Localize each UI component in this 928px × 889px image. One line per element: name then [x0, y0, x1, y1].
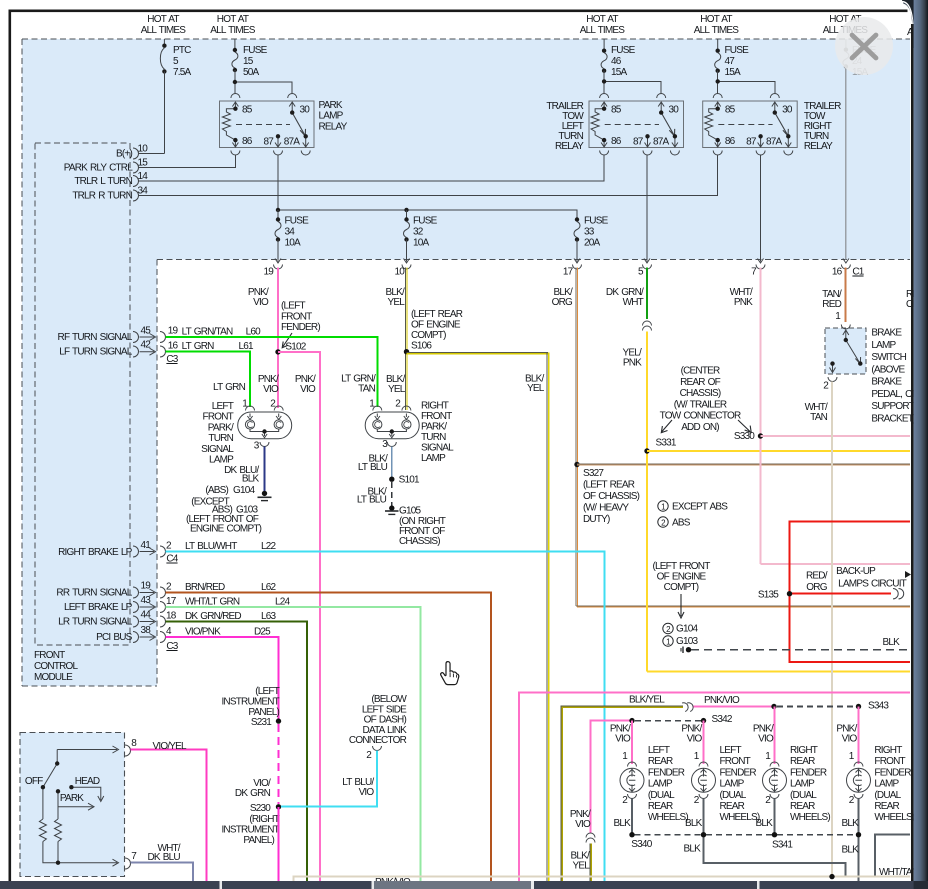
svg-text:86: 86: [611, 136, 622, 147]
svg-text:7.5A: 7.5A: [173, 67, 192, 78]
fuse 33: [574, 216, 609, 249]
svg-text:(DUAL: (DUAL: [648, 790, 675, 801]
labels row 4 D25 C3: [166, 626, 271, 652]
brake lamp switch SW2 internals: [828, 325, 861, 382]
svg-text:43: 43: [140, 595, 151, 606]
svg-text:L60: L60: [246, 327, 262, 338]
wire park relay control row to relay pin 86: [139, 155, 236, 168]
wire VIO/PNK D25 to S231: [166, 637, 279, 719]
connector arrows row 43: [133, 602, 166, 613]
svg-text:85: 85: [611, 104, 622, 115]
svg-text:20A: 20A: [584, 238, 601, 249]
front control module label: [34, 650, 79, 683]
svg-text:ADD ON): ADD ON): [681, 422, 719, 433]
svg-text:(W/ TRAILER: (W/ TRAILER: [674, 399, 727, 410]
wire YEL/PNK lower elbow to right edge: [647, 670, 910, 672]
svg-text:DK BLU: DK BLU: [147, 852, 180, 863]
ground G104/G103: [186, 485, 272, 535]
labels row 2 L62: [166, 582, 277, 594]
labels row 19 L60: [168, 326, 261, 338]
wire VIO/PNK below S230: [278, 807, 280, 881]
wire BLK/YEL below connector: [590, 844, 591, 882]
legend except abs / abs: [658, 501, 728, 529]
svg-text:ABS: ABS: [672, 518, 691, 529]
labels row 18 L63: [166, 611, 277, 623]
svg-text:BLK: BLK: [685, 818, 703, 829]
svg-text:FUSE: FUSE: [725, 45, 750, 56]
svg-text:45: 45: [140, 326, 151, 337]
labels row 2 L22 C4: [166, 541, 277, 565]
svg-text:BLK: BLK: [841, 818, 859, 829]
data link connector pin 2: [366, 746, 381, 761]
labels row 16 L61: [166, 341, 254, 366]
svg-text:BACK-UP: BACK-UP: [836, 566, 876, 577]
svg-text:YEL: YEL: [527, 383, 545, 394]
wire BLK/YEL branch S106 to right feed: [407, 352, 549, 881]
brake lamp switch dashed box: [825, 328, 866, 374]
svg-text:PARK: PARK: [319, 100, 343, 111]
node splice on lamp feed: [771, 704, 776, 709]
svg-text:FENDER: FENDER: [790, 767, 827, 778]
svg-text:10A: 10A: [413, 238, 430, 249]
node junction above fuse 34: [276, 208, 280, 212]
wire BLK lamp E5 to S341: [774, 799, 776, 835]
svg-text:LAMPS CIRCUIT: LAMPS CIRCUIT: [838, 579, 907, 590]
hot at all times label 5: [823, 14, 869, 36]
svg-text:BLK: BLK: [755, 818, 773, 829]
svg-text:PNK: PNK: [623, 358, 642, 369]
splice S331: [644, 438, 677, 454]
svg-text:15A: 15A: [725, 67, 742, 78]
svg-text:INSTRUMENT: INSTRUMENT: [221, 825, 279, 836]
svg-text:17: 17: [166, 596, 177, 607]
svg-text:32: 32: [413, 227, 424, 238]
connector arrows row 44: [133, 616, 166, 627]
svg-text:S102: S102: [285, 342, 306, 353]
svg-text:SWITCH: SWITCH: [871, 352, 906, 363]
svg-text:BRAKE: BRAKE: [871, 328, 902, 339]
svg-text:ORG: ORG: [806, 582, 827, 593]
svg-text:TRLR R TURN: TRLR R TURN: [72, 191, 132, 202]
svg-text:RIGHT: RIGHT: [790, 745, 818, 756]
wire PTC to B(+) row: [163, 71, 165, 153]
wire WHT/TAN brake switch down: [831, 382, 833, 877]
wire LT BLU/VIO DLC to S230: [281, 751, 377, 807]
svg-text:REAR: REAR: [790, 756, 815, 767]
svg-text:FRONT: FRONT: [874, 756, 905, 767]
svg-text:S330: S330: [734, 431, 755, 442]
fuse 34: [275, 216, 309, 249]
svg-text:S327: S327: [583, 468, 604, 479]
wire BLK/ORG pin 17 down: [576, 268, 577, 607]
left front fender lamp E4: [681, 724, 760, 824]
svg-text:(LEFT FRONT: (LEFT FRONT: [652, 561, 710, 572]
svg-text:S230: S230: [250, 803, 271, 814]
svg-text:(ABS): (ABS): [205, 485, 228, 496]
svg-text:BRAKE: BRAKE: [871, 377, 902, 388]
svg-text:ALL TIMES: ALL TIMES: [141, 25, 187, 36]
inline connector PNK/VIO to BLK/YEL lower: [586, 833, 595, 843]
svg-text:34: 34: [285, 227, 296, 238]
trailer tow left turn relay U2: [546, 94, 683, 156]
headlamp switch dashed box: [20, 733, 125, 877]
splice S327: [574, 462, 639, 525]
node WHT/TAN junction with brake switch wire: [829, 874, 834, 879]
svg-text:DK GRN/RED: DK GRN/RED: [185, 611, 241, 622]
svg-text:19: 19: [140, 581, 151, 592]
svg-text:LT BLU: LT BLU: [358, 462, 388, 473]
wire trailer right turn row to right relay pin 86: [139, 155, 718, 196]
svg-text:VIO: VIO: [253, 297, 269, 308]
splice S101: [389, 475, 420, 486]
svg-text:OF ENGINE: OF ENGINE: [657, 572, 707, 583]
node TRLR L TURN pin 14: [74, 171, 148, 187]
wire LT GRN L61 to left lamp pin 1: [166, 352, 251, 407]
splice S106: [404, 309, 463, 354]
svg-text:BLK: BLK: [882, 637, 900, 648]
svg-text:B(+): B(+): [116, 149, 132, 160]
svg-text:FRONT: FRONT: [203, 412, 234, 423]
svg-text:FRONT: FRONT: [281, 311, 312, 322]
node RF TURN SIGNAL pin 45: [58, 326, 152, 344]
svg-text:C3: C3: [166, 354, 178, 365]
svg-text:16: 16: [168, 341, 179, 352]
splice S341: [772, 832, 794, 851]
node junction E4 on dashed ground bus: [701, 832, 706, 837]
svg-text:PARK/: PARK/: [208, 422, 234, 433]
svg-text:DUTY): DUTY): [583, 514, 610, 525]
wire fuse 24 down to pin 16 (dimmed): [845, 67, 847, 260]
svg-text:RIGHT: RIGHT: [874, 745, 902, 756]
svg-text:87: 87: [746, 136, 757, 147]
svg-text:FUSE: FUSE: [413, 216, 438, 227]
svg-text:LAMP: LAMP: [209, 455, 234, 466]
inline connector BLK/YEL to PNK/VIO: [682, 701, 694, 711]
svg-text:LT GRN: LT GRN: [182, 341, 215, 352]
svg-text:(DUAL: (DUAL: [874, 790, 901, 801]
svg-text:BLK/YEL: BLK/YEL: [629, 695, 665, 706]
svg-text:YEL: YEL: [572, 861, 590, 872]
fuse 47: [715, 39, 749, 78]
wire DK GRN/WHT pin 5 down: [646, 268, 648, 320]
close button X: [835, 17, 893, 75]
svg-text:RIGHT BRAKE LP: RIGHT BRAKE LP: [58, 547, 133, 558]
svg-text:TAN: TAN: [358, 384, 375, 395]
svg-text:86: 86: [725, 136, 736, 147]
svg-text:34: 34: [138, 186, 149, 197]
pin arrows through dashed boundary: [274, 259, 851, 270]
wire VIO/DK GRN dashed S231 to S230: [277, 724, 279, 804]
svg-text:WHT/LT GRN: WHT/LT GRN: [185, 597, 240, 608]
svg-text:L63: L63: [261, 611, 277, 622]
svg-text:PARK: PARK: [60, 793, 84, 804]
svg-text:D25: D25: [254, 627, 271, 638]
svg-text:FENDER: FENDER: [720, 767, 757, 778]
svg-text:VIO/YEL: VIO/YEL: [153, 741, 188, 752]
wire BLK lamp E6 down to bottom: [858, 799, 860, 882]
splice S231: [221, 686, 281, 728]
svg-text:LT GRN/TAN: LT GRN/TAN: [182, 327, 233, 338]
wire WHT/PNK pin 7 down: [760, 268, 762, 565]
wire fuse 46 to left relay pins 85 and 30: [604, 71, 661, 94]
svg-text:RELAY: RELAY: [804, 141, 833, 152]
wire trailer left turn row to left relay pin 86: [139, 155, 605, 181]
ground G105: [385, 505, 446, 547]
label LT GRN/TAN above right lamp pin1: [341, 374, 376, 395]
wire junction to fuse 32: [406, 210, 408, 220]
svg-text:PCI BUS: PCI BUS: [96, 632, 133, 643]
node B(+) pin 10: [116, 144, 148, 160]
svg-text:85: 85: [725, 104, 736, 115]
svg-text:FUSE: FUSE: [243, 45, 268, 56]
wire RED/ORG back-up lamps circuit: [790, 522, 911, 662]
svg-text:TURN: TURN: [208, 433, 233, 444]
svg-text:L24: L24: [275, 597, 291, 608]
svg-text:87: 87: [633, 136, 644, 147]
wire BRN/RED L62: [166, 593, 492, 882]
wire dashed ground bus S340 to S341 to E6: [635, 834, 857, 836]
svg-text:(LEFT: (LEFT: [255, 686, 279, 697]
wire fuse 15 to relay pins 85 and 30: [235, 70, 292, 94]
svg-text:REAR: REAR: [648, 801, 673, 812]
svg-text:S101: S101: [399, 475, 420, 486]
wire WHT/TAN bottom run: [294, 877, 910, 881]
svg-text:ALL TIMES: ALL TIMES: [580, 25, 626, 36]
svg-text:LAMP: LAMP: [874, 779, 899, 790]
svg-text:S343: S343: [868, 701, 889, 712]
note left front of engine compt with arrow: [652, 561, 710, 618]
wire BLK from right edge elbow down: [875, 835, 910, 877]
svg-text:C3: C3: [166, 641, 178, 652]
connector arrows row 42: [133, 346, 166, 357]
svg-text:S341: S341: [772, 840, 793, 851]
svg-text:CONTROL: CONTROL: [34, 661, 79, 672]
splice S230: [221, 803, 281, 846]
svg-text:LAMP: LAMP: [871, 340, 896, 351]
svg-text:(LEFT REAR: (LEFT REAR: [583, 480, 635, 491]
svg-text:LAMP: LAMP: [720, 779, 745, 790]
svg-text:L22: L22: [261, 541, 277, 552]
svg-text:WHEELS): WHEELS): [720, 812, 760, 823]
wire BLK/ORG branch S327 to right edge: [577, 464, 910, 465]
svg-text:S342: S342: [712, 714, 733, 725]
svg-text:87A: 87A: [284, 136, 301, 147]
svg-text:REAR: REAR: [790, 801, 815, 812]
connector arrows row 45: [133, 332, 166, 343]
node splice on rear feed: [629, 718, 634, 723]
svg-text:17: 17: [563, 267, 574, 278]
svg-text:VIO: VIO: [263, 384, 279, 395]
wire BLK/YEL pin 10 down: [406, 268, 407, 411]
svg-text:LT BLU: LT BLU: [357, 495, 387, 506]
svg-text:LAMP: LAMP: [648, 779, 673, 790]
svg-text:VIO: VIO: [615, 734, 631, 745]
circuit breaker PTC 5: [160, 39, 191, 78]
trailer tow right turn relay U3: [703, 94, 841, 156]
svg-text:50A: 50A: [243, 67, 260, 78]
svg-text:C1: C1: [852, 267, 864, 278]
svg-text:WHEELS): WHEELS): [648, 812, 688, 823]
svg-text:REAR: REAR: [874, 801, 899, 812]
svg-text:PTC: PTC: [173, 45, 191, 56]
svg-text:38: 38: [140, 625, 151, 636]
wire DK BLU/BLK to ground: [264, 447, 266, 494]
svg-text:(RIGHT: (RIGHT: [249, 814, 279, 825]
brake lamp switch label: [871, 328, 919, 425]
svg-text:SUPPORT: SUPPORT: [871, 401, 914, 412]
svg-text:EXCEPT ABS: EXCEPT ABS: [672, 502, 728, 513]
label PNK/VIO above left lamp pin2: [258, 374, 279, 395]
node PARK RLY CTRL pin 15: [64, 158, 149, 174]
svg-text:L61: L61: [239, 341, 255, 352]
svg-text:HOT AT: HOT AT: [217, 14, 249, 25]
note center rear of chassis with arrows to S331 S330: [660, 366, 752, 434]
node LEFT BRAKE LP pin 43: [64, 595, 151, 613]
svg-text:ALL TIMES: ALL TIMES: [694, 25, 740, 36]
hot at all times label 4: [694, 14, 740, 36]
svg-text:S231: S231: [251, 717, 272, 728]
svg-text:COMPT): COMPT): [411, 330, 446, 341]
splice S330: [734, 431, 763, 442]
hot at all times label 3: [580, 14, 626, 36]
svg-text:ALL TIMES: ALL TIMES: [210, 25, 256, 36]
svg-text:RELAY: RELAY: [319, 121, 348, 132]
label PNK/VIO branch: [295, 374, 316, 395]
dashed border of hot-at-all-times region: [22, 39, 910, 686]
svg-text:RF TURN SIGNAL: RF TURN SIGNAL: [58, 332, 133, 343]
svg-text:19: 19: [168, 326, 179, 337]
svg-text:PNK: PNK: [734, 297, 753, 308]
svg-text:LAMP: LAMP: [790, 779, 815, 790]
wire BLK dashed to right edge: [691, 649, 910, 651]
svg-text:WHT: WHT: [623, 297, 644, 308]
wire junction to fuse 34: [277, 210, 279, 220]
wire dashed to S342: [635, 720, 701, 722]
labels PNK/VIO over BLK/YEL: [570, 809, 591, 872]
fuse 15: [232, 39, 268, 78]
node LR TURN SIGNAL pin 44: [58, 610, 151, 628]
svg-text:46: 46: [611, 56, 622, 67]
svg-text:LAMP: LAMP: [319, 111, 344, 122]
wires fuses down to dashed boundary: [278, 155, 761, 262]
svg-text:S340: S340: [631, 839, 652, 850]
svg-text:30: 30: [669, 104, 680, 115]
svg-text:OF CHASSIS): OF CHASSIS): [583, 491, 640, 502]
svg-text:G104: G104: [676, 624, 699, 635]
label back-up lamps circuit: [836, 566, 911, 590]
svg-text:(W/ HEAVY: (W/ HEAVY: [583, 503, 629, 514]
svg-text:HOT AT: HOT AT: [586, 14, 618, 25]
svg-text:30: 30: [300, 104, 311, 115]
svg-text:LEFT: LEFT: [648, 745, 670, 756]
node LF TURN SIGNAL pin 42: [59, 340, 151, 358]
svg-text:VIO: VIO: [300, 384, 316, 395]
wire fuse 47 to right relay pins 85 and 30: [718, 71, 775, 94]
wire PNK/VIO pin 19 down: [277, 268, 279, 409]
wire DK GRN/RED L63: [166, 622, 307, 882]
svg-text:47: 47: [725, 56, 736, 67]
svg-text:LR TURN SIGNAL: LR TURN SIGNAL: [58, 617, 133, 628]
svg-text:SIGNAL: SIGNAL: [201, 444, 234, 455]
wire WHT/LT GRN L24: [166, 607, 421, 881]
connector arrows row 38: [133, 632, 166, 643]
svg-text:LEFT: LEFT: [720, 745, 742, 756]
ground ref G104 G103: [663, 623, 699, 647]
fuse 24 (dimmed): [843, 39, 877, 78]
label WHT/TAN: [805, 402, 828, 423]
svg-text:INSTRUMENT: INSTRUMENT: [221, 697, 279, 708]
svg-text:VIO/PNK: VIO/PNK: [185, 627, 221, 638]
svg-text:RR TURN SIGNAL: RR TURN SIGNAL: [56, 588, 132, 599]
svg-text:CONNECTOR: CONNECTOR: [349, 735, 407, 746]
svg-text:FENDER: FENDER: [874, 767, 911, 778]
svg-text:BLK: BLK: [242, 474, 260, 485]
svg-text:87A: 87A: [766, 136, 783, 147]
svg-text:L62: L62: [261, 582, 277, 593]
splice S135: [758, 590, 792, 601]
wire name labels row: [248, 287, 928, 310]
svg-text:G103: G103: [676, 636, 699, 647]
svg-text:FENDER): FENDER): [281, 322, 320, 333]
fuse 32: [404, 216, 438, 249]
right rear fender lamp E5: [753, 724, 831, 824]
svg-text:OF ENGINE: OF ENGINE: [411, 320, 461, 331]
svg-text:C4: C4: [166, 554, 178, 565]
svg-text:MODULE: MODULE: [34, 672, 73, 683]
svg-text:DK GRN: DK GRN: [235, 788, 271, 799]
wire WHT/PNK branch S330 to right edge: [761, 435, 911, 437]
svg-text:(LEFT: (LEFT: [281, 301, 305, 312]
svg-text:18: 18: [166, 611, 177, 622]
svg-text:VIO: VIO: [359, 787, 375, 798]
wire PNK/VIO rear lamp branch with inline connector: [591, 721, 633, 833]
svg-text:BLK: BLK: [683, 844, 701, 855]
svg-text:TURN: TURN: [421, 432, 446, 443]
ground symbol bottom: [681, 647, 691, 654]
svg-text:LAMP: LAMP: [421, 453, 446, 464]
svg-text:LT GRN: LT GRN: [213, 382, 246, 393]
svg-text:HOT AT: HOT AT: [147, 14, 179, 25]
node RR TURN SIGNAL pin 19: [56, 581, 151, 599]
wire PNK/VIO after connector: [694, 706, 775, 708]
svg-text:S135: S135: [758, 590, 779, 601]
splice S342: [701, 714, 733, 725]
right front fender lamp E6: [836, 724, 914, 824]
svg-text:(DUAL: (DUAL: [720, 790, 747, 801]
splice S343: [856, 701, 890, 712]
node junction above fuse 32: [404, 208, 408, 212]
svg-text:19: 19: [263, 267, 274, 278]
left front park/turn signal lamp E1: [201, 399, 292, 466]
svg-text:FENDER: FENDER: [648, 767, 685, 778]
node RIGHT BRAKE LP pin 41: [58, 540, 151, 558]
svg-text:(ABOVE: (ABOVE: [871, 364, 905, 375]
svg-text:(CENTER: (CENTER: [681, 366, 720, 377]
left rear fender lamp E3: [610, 724, 688, 824]
svg-text:15: 15: [243, 56, 254, 67]
connector arrows row 19b: [133, 587, 166, 598]
front control module C3 connector top pins: [133, 148, 139, 201]
svg-text:86: 86: [242, 136, 253, 147]
svg-text:SIGNAL: SIGNAL: [421, 443, 454, 454]
svg-text:ORG: ORG: [552, 297, 573, 308]
svg-text:BRACKET): BRACKET): [871, 413, 916, 424]
wire BLK/ORG lower elbow to right edge: [576, 606, 910, 607]
svg-text:FRONT: FRONT: [720, 756, 751, 767]
svg-text:PARK/: PARK/: [421, 422, 447, 433]
svg-text:10: 10: [394, 267, 405, 278]
svg-text:RED/: RED/: [806, 570, 828, 581]
